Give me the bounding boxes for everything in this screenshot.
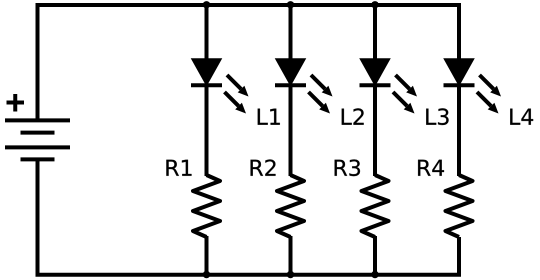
label L1 <box>258 109 280 125</box>
label L4 <box>510 109 533 125</box>
junction node on top rail at branch 2 <box>287 1 294 8</box>
label R2 <box>251 159 276 175</box>
LED L1 light emission arrows <box>225 75 249 114</box>
wire: resistor R2 to bottom rail <box>289 236 293 275</box>
junction node on top rail at branch 1 <box>203 1 210 8</box>
battery + polarity sign <box>7 94 25 112</box>
wire: LED L1 cathode to resistor R1 <box>205 85 209 176</box>
junction node on bottom rail at branch 2 <box>287 271 294 278</box>
label L2 <box>342 108 364 124</box>
battery B1 long plate 2 <box>5 145 70 149</box>
wire: resistor R3 to bottom rail <box>373 236 377 275</box>
wire: top rail to LED L1 anode <box>205 5 209 60</box>
wire: positive rail from battery + terminal along top to LED4 anode <box>38 5 460 120</box>
junction node on bottom rail at branch 3 <box>371 271 378 278</box>
LED L2 light emission arrows <box>309 75 333 114</box>
label R1 <box>166 160 191 176</box>
wire: negative rail from battery - terminal along bottom to R4 <box>38 159 460 274</box>
LED L3 (triangle and cathode bar) <box>360 59 391 85</box>
battery B1 negative short plate <box>21 157 55 161</box>
wire: LED L3 cathode to resistor R3 <box>373 85 377 176</box>
resistor R3 <box>362 175 389 237</box>
battery B1 positive long plate <box>5 118 70 122</box>
LED L4 light emission arrows <box>477 75 501 114</box>
junction node on bottom rail at branch 1 <box>203 271 210 278</box>
wire: LED L2 cathode to resistor R2 <box>289 85 293 176</box>
junction node on top rail at branch 3 <box>371 1 378 8</box>
LED L1 (triangle and cathode bar) <box>191 59 222 85</box>
label R4 <box>418 160 444 176</box>
label R3 <box>335 159 360 176</box>
wire: top rail to LED L2 anode <box>289 5 293 60</box>
resistor R2 <box>277 175 304 237</box>
wire: LED L4 cathode to resistor R4 <box>457 85 461 176</box>
battery B1 short plate 1 <box>21 131 55 135</box>
LED L4 (triangle and cathode bar) <box>444 59 475 85</box>
LED L2 (triangle and cathode bar) <box>275 59 306 85</box>
wire: resistor R1 to bottom rail <box>205 236 209 275</box>
label L3 <box>426 108 448 125</box>
LED L3 light emission arrows <box>393 75 417 114</box>
wire: top rail to LED L3 anode <box>373 5 377 60</box>
resistor R1 <box>193 175 220 237</box>
resistor R4 <box>446 175 473 237</box>
